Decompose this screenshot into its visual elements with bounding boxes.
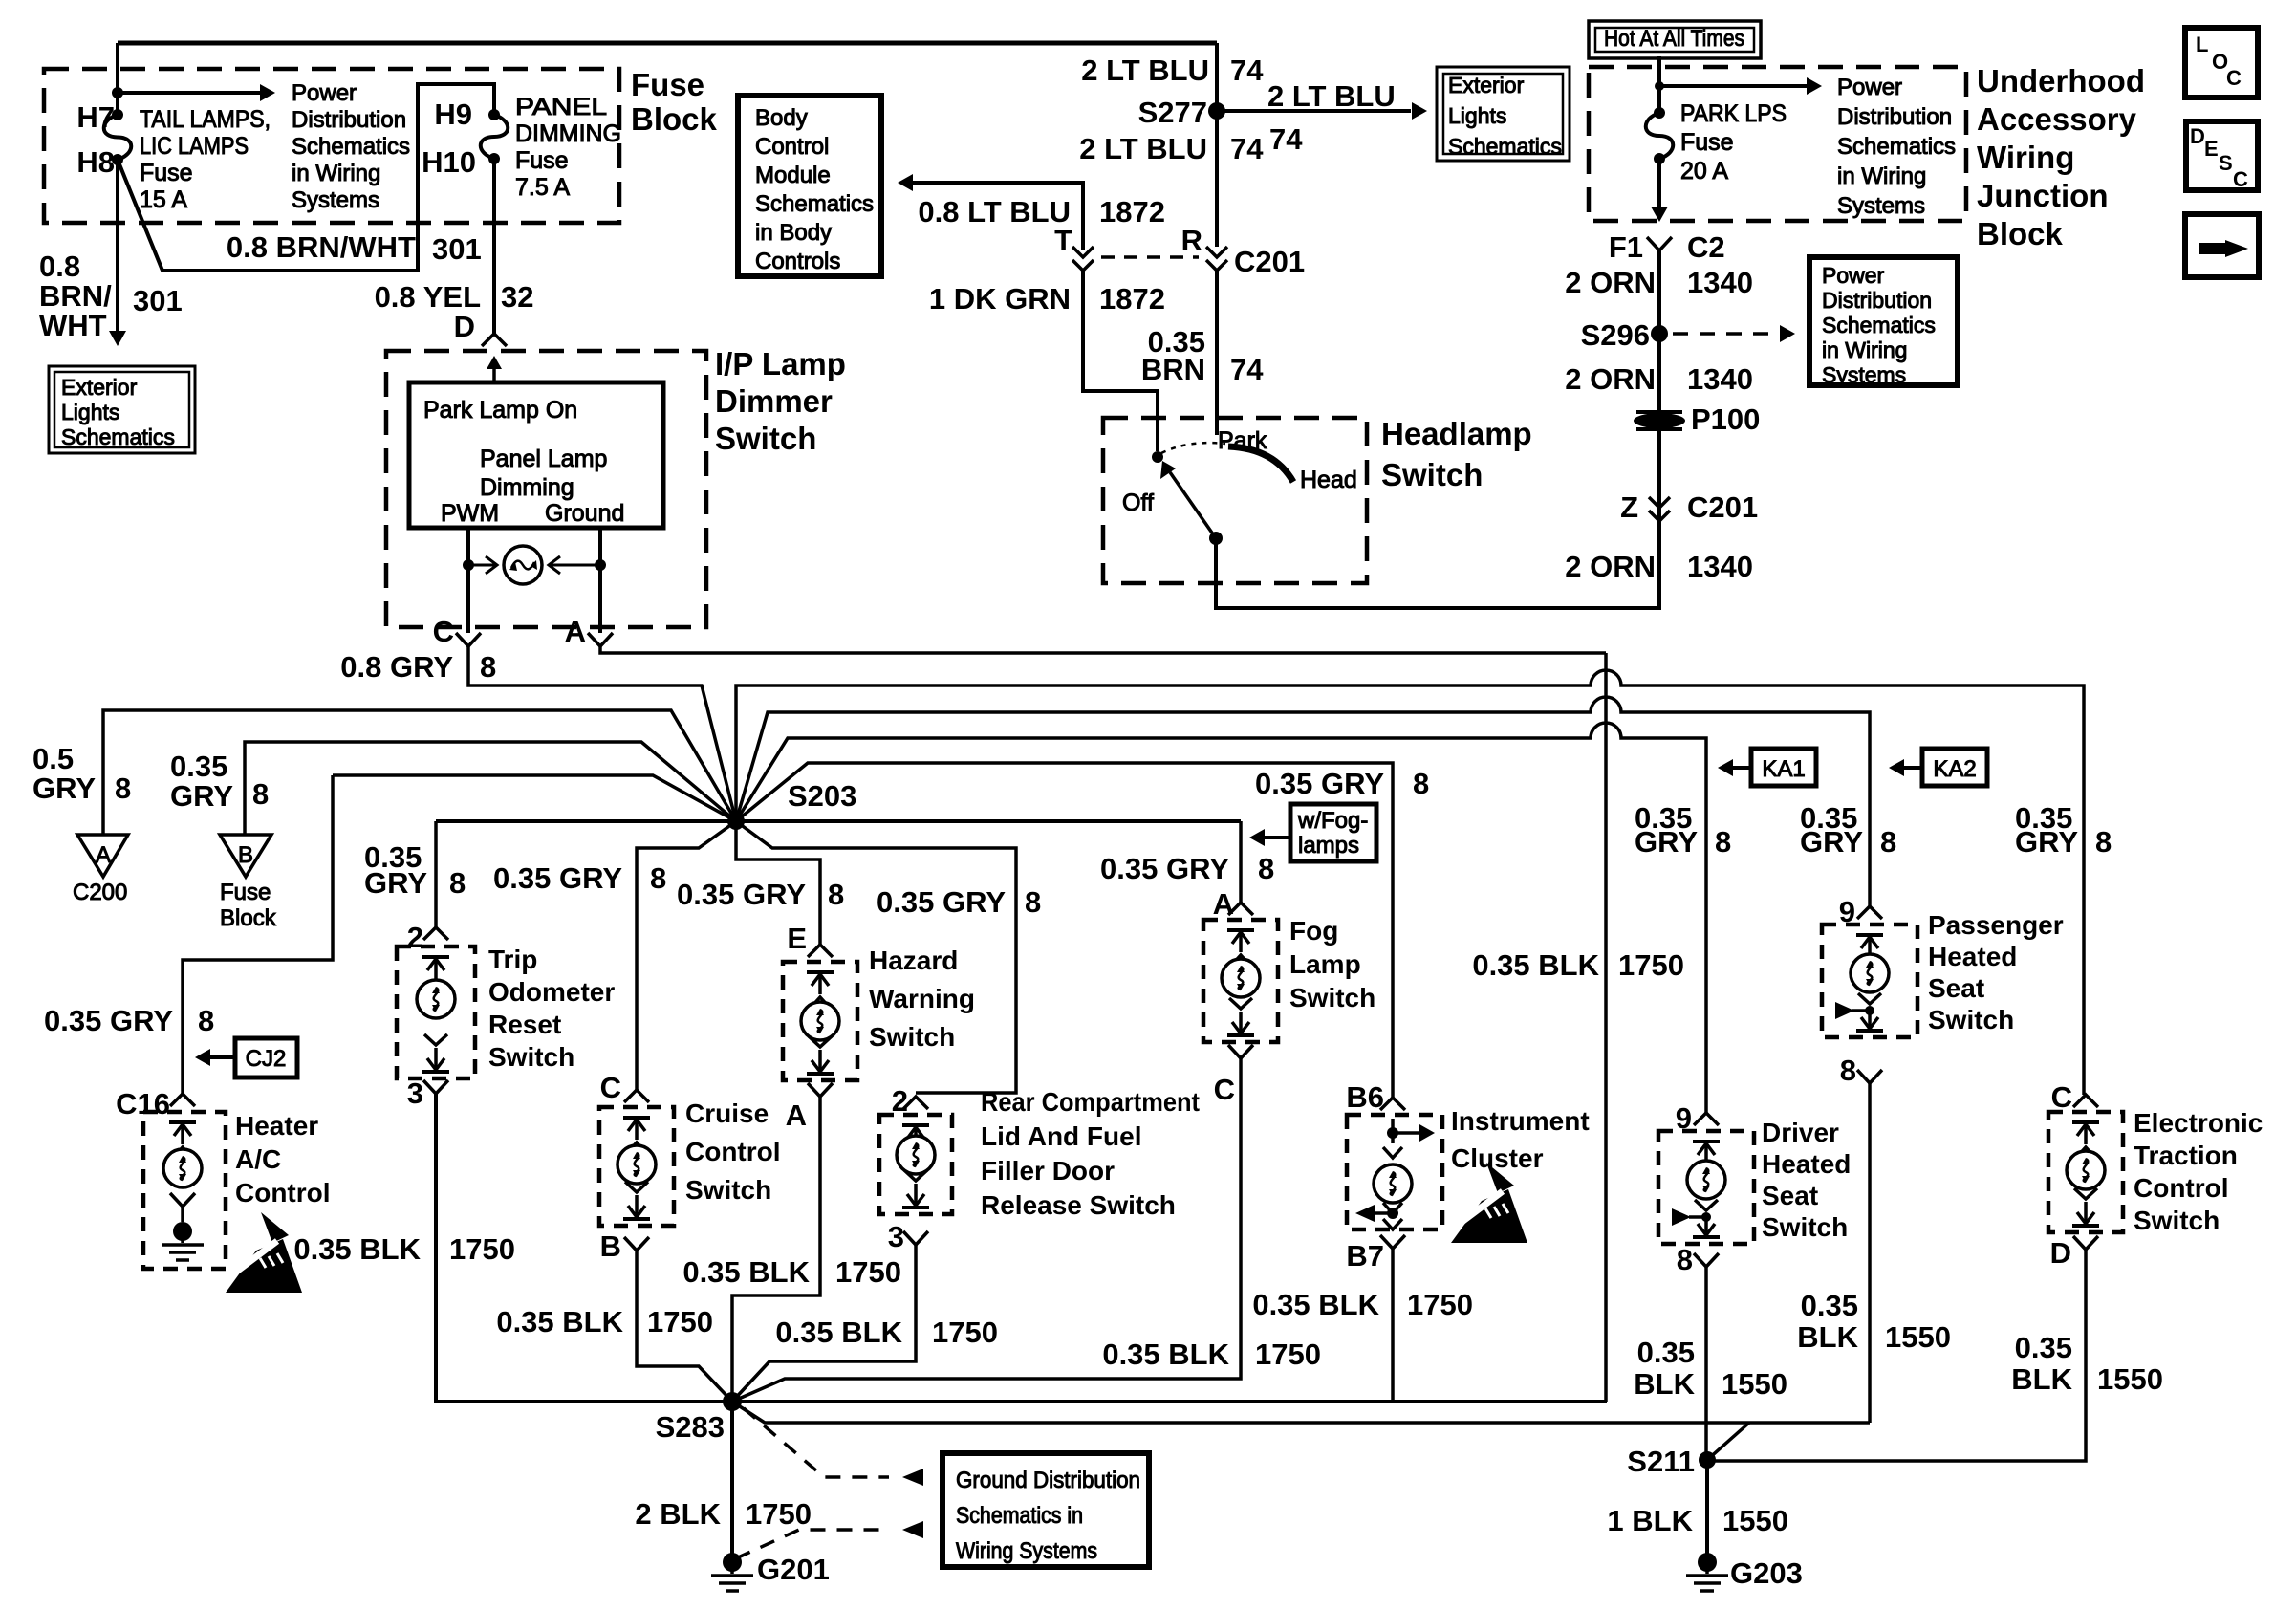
svg-text:Fuse: Fuse <box>140 160 193 186</box>
svg-text:Seat: Seat <box>1762 1181 1818 1210</box>
svg-text:GRY: GRY <box>1800 825 1863 859</box>
svg-text:GRY: GRY <box>170 779 233 813</box>
svg-text:in Wiring: in Wiring <box>292 161 380 186</box>
body control module box <box>738 96 881 276</box>
svg-text:Switch: Switch <box>1928 1005 2014 1034</box>
label G201 <box>757 1553 830 1586</box>
svg-text:GRY: GRY <box>364 866 427 900</box>
wire S283 to S211 bridge <box>732 1402 1870 1423</box>
label 0.35 GRY cruise <box>493 861 666 895</box>
label Rear Compartment Lid And Fuel Filler Door Release Switch <box>981 1087 1200 1220</box>
svg-text:2 LT BLU: 2 LT BLU <box>1079 132 1207 165</box>
svg-text:B: B <box>238 842 253 868</box>
connector C201 Z <box>1649 497 1670 521</box>
svg-text:P100: P100 <box>1691 402 1760 436</box>
svg-text:CJ2: CJ2 <box>246 1046 287 1072</box>
label Ground Distribution Schematics in Wiring Systems <box>956 1468 1140 1564</box>
svg-text:8: 8 <box>1258 852 1274 885</box>
svg-text:Control: Control <box>755 134 829 160</box>
driver heated seat switch box <box>1658 1131 1754 1244</box>
svg-text:Headlamp: Headlamp <box>1381 416 1532 451</box>
svg-text:Systems: Systems <box>1837 193 1925 219</box>
svg-text:PARK LPS: PARK LPS <box>1680 100 1787 127</box>
splice S211 <box>1699 1451 1716 1469</box>
svg-text:Control: Control <box>685 1137 781 1166</box>
splice S277 <box>1208 102 1225 120</box>
label Cruise Control Switch <box>685 1099 781 1205</box>
svg-text:1872: 1872 <box>1099 195 1165 228</box>
svg-text:0.35 GRY: 0.35 GRY <box>1100 852 1229 885</box>
svg-text:Accessory: Accessory <box>1977 101 2137 137</box>
pin A label <box>565 615 586 648</box>
note Power Distribution Schematics in Wiring Systems <box>292 80 410 213</box>
connector chevron D <box>482 334 507 346</box>
svg-text:8: 8 <box>1715 825 1731 859</box>
svg-text:Block: Block <box>1977 216 2064 251</box>
wire headlamp feed 2 ORN <box>1216 519 1659 608</box>
svg-text:1750: 1750 <box>835 1255 901 1289</box>
wire 0.8 BRN/WHT H8 to exterior lights <box>109 160 126 346</box>
connector chevron rear 2 <box>903 1097 928 1109</box>
svg-text:1340: 1340 <box>1687 550 1753 583</box>
splice S283 <box>723 1392 742 1411</box>
svg-text:0.35: 0.35 <box>2015 1331 2072 1364</box>
svg-text:LIC LAMPS: LIC LAMPS <box>140 133 249 160</box>
svg-text:Rear Compartment: Rear Compartment <box>981 1087 1200 1117</box>
svg-text:Control: Control <box>2134 1173 2229 1203</box>
CJ2 arrow <box>195 1049 235 1066</box>
label 2 LT BLU mid <box>1079 132 1264 165</box>
svg-text:2 BLK: 2 BLK <box>635 1497 721 1531</box>
svg-text:0.35 GRY: 0.35 GRY <box>877 885 1006 919</box>
svg-text:301: 301 <box>133 284 183 317</box>
label Passenger Heated Seat Switch <box>1928 910 2064 1034</box>
svg-text:Head: Head <box>1300 467 1357 493</box>
w/Fog-lamps box <box>1290 804 1376 861</box>
svg-text:Dimmer: Dimmer <box>715 383 833 419</box>
svg-text:8: 8 <box>1677 1243 1693 1276</box>
wire S203 to passenger bus R2 <box>736 697 1870 906</box>
svg-text:D: D <box>454 310 475 343</box>
connector chevron rear 3 <box>903 1231 928 1245</box>
connector chevron B7 <box>1380 1235 1405 1249</box>
svg-text:8: 8 <box>1413 767 1429 800</box>
pin A label hazard <box>786 1099 807 1132</box>
wire trip return 0.35 BLK to S283 <box>436 1094 1607 1402</box>
svg-text:Wiring Systems: Wiring Systems <box>956 1538 1097 1564</box>
LOC legend box <box>2185 28 2258 98</box>
svg-text:DIMMING: DIMMING <box>515 120 621 147</box>
svg-text:1872: 1872 <box>1099 282 1165 315</box>
svg-text:0.35 BLK: 0.35 BLK <box>1472 948 1599 982</box>
arrow to power distribution note <box>118 84 275 101</box>
svg-text:Switch: Switch <box>2134 1206 2220 1235</box>
label 0.35 GRY traction <box>2015 801 2112 859</box>
label 0.35 BLK rear return <box>775 1316 998 1349</box>
svg-text:Distribution: Distribution <box>1837 104 1952 130</box>
svg-text:G203: G203 <box>1730 1556 1803 1590</box>
svg-text:C: C <box>600 1071 621 1104</box>
svg-text:1750: 1750 <box>932 1316 998 1349</box>
label Driver Heated Seat Switch <box>1762 1118 1851 1242</box>
svg-text:1750: 1750 <box>1407 1288 1473 1321</box>
wire park lps down with arrow <box>1651 159 1668 222</box>
cruise control switch box <box>599 1107 674 1226</box>
label S203 <box>788 779 856 813</box>
svg-text:0.35 BLK: 0.35 BLK <box>293 1232 421 1266</box>
label 0.35 BLK driver return <box>1634 1336 1787 1401</box>
connector chevron trip 2 <box>423 927 448 940</box>
svg-text:BLK: BLK <box>2011 1362 2072 1396</box>
svg-text:0.35 GRY: 0.35 GRY <box>1255 767 1384 800</box>
svg-text:C: C <box>433 615 454 648</box>
svg-text:Cruise: Cruise <box>685 1099 769 1128</box>
svg-text:L: L <box>2196 33 2208 56</box>
svg-text:A: A <box>1213 887 1234 921</box>
svg-text:A: A <box>786 1099 807 1132</box>
headlamp park contact arc <box>1228 446 1293 482</box>
connector chevron driver 8 <box>1694 1253 1719 1267</box>
label Instrument Cluster <box>1451 1106 1590 1173</box>
svg-text:B: B <box>600 1229 621 1263</box>
svg-text:KA1: KA1 <box>1762 756 1805 782</box>
ground distribution schematics box <box>942 1453 1149 1567</box>
wire F1 to S296 <box>1657 250 1661 602</box>
svg-text:E: E <box>2204 137 2219 161</box>
svg-text:0.35 GRY: 0.35 GRY <box>44 1004 173 1037</box>
connector chevron passenger 8 <box>1857 1070 1882 1083</box>
svg-text:Heated: Heated <box>1928 942 2017 971</box>
wire BCM arrow to T <box>898 174 1083 250</box>
w/Fog-lamps arrow <box>1249 829 1290 846</box>
svg-text:E: E <box>787 922 807 955</box>
connector chevron C out <box>456 633 481 646</box>
label 0.35 BLK cruise return <box>496 1305 713 1338</box>
svg-text:Switch: Switch <box>1289 983 1375 1012</box>
wire top bus 2 LT BLU to S277 <box>118 41 1217 46</box>
arrow legend box <box>2185 214 2259 277</box>
wire driver return 0.35 BLK 1550 <box>1704 1267 1708 1460</box>
label Park <box>1218 427 1267 454</box>
dimmer switch inner box <box>409 382 663 528</box>
fog lamp switch box <box>1203 920 1278 1042</box>
wire S277 arrow to exterior lights <box>1217 102 1427 120</box>
wire 1 BLK to G203 <box>1705 1460 1709 1556</box>
label Exterior Lights Schematics right <box>1448 73 1562 159</box>
svg-text:8: 8 <box>252 777 269 811</box>
pin H9 label <box>434 98 472 131</box>
svg-text:in Wiring: in Wiring <box>1837 163 1926 189</box>
wire 2 BLK to G201 <box>730 1402 734 1556</box>
label Body Control Module Schematics in Body Controls <box>755 105 874 274</box>
svg-text:0.35: 0.35 <box>170 750 227 783</box>
label Fog Lamp Switch <box>1289 916 1375 1012</box>
svg-text:Warning: Warning <box>869 984 975 1013</box>
note Power Distribution right <box>1837 75 1956 219</box>
svg-text:0.35 GRY: 0.35 GRY <box>677 878 806 911</box>
dimmer lamp symbol dots <box>463 559 606 571</box>
svg-text:8: 8 <box>1840 1054 1856 1087</box>
svg-text:1 DK GRN: 1 DK GRN <box>929 282 1071 315</box>
heater internal ground <box>162 1222 204 1260</box>
svg-text:Heater: Heater <box>235 1111 318 1141</box>
svg-text:2 LT BLU: 2 LT BLU <box>1267 79 1396 113</box>
wire 0.8 YEL 32 H10 to dimmer D <box>492 159 496 334</box>
svg-text:Block: Block <box>631 101 718 137</box>
svg-text:1750: 1750 <box>1618 948 1684 982</box>
svg-text:8: 8 <box>650 861 666 895</box>
svg-text:0.35 BLK: 0.35 BLK <box>496 1305 623 1338</box>
svg-text:74: 74 <box>1230 353 1264 386</box>
svg-text:Cluster: Cluster <box>1451 1143 1544 1173</box>
svg-text:A/C: A/C <box>235 1144 281 1174</box>
label 1750 trip return <box>449 1232 515 1266</box>
label 301 right <box>432 232 482 266</box>
cluster bulb <box>1374 1147 1412 1203</box>
label PANEL DIMMING Fuse 7.5 A <box>515 94 621 201</box>
hazard warning switch box <box>783 962 857 1080</box>
svg-text:TAIL LAMPS,: TAIL LAMPS, <box>140 106 271 133</box>
svg-text:20 A: 20 A <box>1680 158 1728 185</box>
label 0.35 GRY passenger <box>1800 801 1896 859</box>
pin H7 label <box>76 100 115 134</box>
svg-text:C200: C200 <box>73 880 127 905</box>
svg-text:0.8 YEL: 0.8 YEL <box>375 280 481 314</box>
svg-text:Lights: Lights <box>1448 103 1506 128</box>
svg-text:0.35 BLK: 0.35 BLK <box>1102 1338 1229 1371</box>
label 0.8 YEL <box>375 280 481 314</box>
svg-text:8: 8 <box>2095 825 2112 859</box>
label S211 <box>1627 1445 1695 1478</box>
wire fog return 0.35 BLK <box>732 1058 1241 1402</box>
svg-text:0.35 BLK: 0.35 BLK <box>775 1316 902 1349</box>
svg-text:WHT: WHT <box>39 309 107 342</box>
headlamp off contact dot <box>1152 451 1163 463</box>
svg-text:8: 8 <box>1025 885 1041 919</box>
wire fog feed down <box>1239 821 1243 903</box>
fuse TAIL LAMPS terminal dots <box>112 109 123 165</box>
label 2 LT BLU top <box>1081 54 1264 87</box>
connector chevron C16 <box>170 1094 195 1106</box>
svg-text:Release Switch: Release Switch <box>981 1190 1176 1220</box>
headlamp off dotted arc <box>1161 443 1225 453</box>
connector chevron traction C <box>2073 1095 2098 1107</box>
svg-text:H8: H8 <box>76 145 115 179</box>
pin D label traction <box>2050 1236 2071 1270</box>
svg-text:0.35: 0.35 <box>1637 1336 1695 1369</box>
ESD symbol heater <box>224 1212 302 1293</box>
svg-text:BLK: BLK <box>1634 1367 1695 1401</box>
svg-text:301: 301 <box>432 232 482 266</box>
KA2 box <box>1922 749 1987 786</box>
label Fuse Block under B <box>220 880 277 931</box>
svg-text:0.35 GRY: 0.35 GRY <box>493 861 622 895</box>
label 0.35 GRY rear <box>877 885 1041 919</box>
svg-text:Exterior: Exterior <box>61 375 138 400</box>
park lps fuse element <box>1646 113 1674 159</box>
label 0.5 GRY 8 <box>32 742 131 805</box>
svg-text:1550: 1550 <box>1722 1504 1788 1537</box>
label 2 ORN 1 <box>1565 266 1753 299</box>
svg-text:Fuse: Fuse <box>631 67 704 102</box>
label 1750 G201 <box>746 1497 812 1531</box>
dimmer internal arrow from D <box>487 356 502 381</box>
label Panel Lamp Dimming <box>480 446 607 501</box>
svg-text:Systems: Systems <box>1822 362 1906 387</box>
label 0.35 GRY heater <box>44 1004 173 1037</box>
svg-text:A: A <box>96 842 111 868</box>
heater internal ground chevron <box>170 1193 195 1222</box>
svg-text:Lamp: Lamp <box>1289 949 1361 979</box>
svg-text:Switch: Switch <box>685 1175 771 1205</box>
pin 9 label driver <box>1676 1101 1692 1135</box>
wire S203 up to right bus R1 <box>736 670 2084 1095</box>
label PWM <box>441 500 499 527</box>
svg-text:0.35 BLK: 0.35 BLK <box>682 1255 810 1289</box>
label 301 left <box>133 284 183 317</box>
label PARK LPS Fuse 20 A <box>1680 100 1787 185</box>
label 1550 G203 <box>1722 1504 1788 1537</box>
svg-text:1 BLK: 1 BLK <box>1607 1504 1693 1537</box>
label 1750 on rail <box>1618 948 1684 982</box>
label 1872 upper <box>1099 195 1165 228</box>
label 2 ORN 3 <box>1565 550 1753 583</box>
splice S296 <box>1651 325 1668 342</box>
wire cruise return 0.35 BLK <box>637 1251 732 1402</box>
label 0.35 BLK B7 return <box>1252 1288 1473 1321</box>
arrow to power distribution right <box>1655 77 1822 95</box>
label Exterior Lights Schematics <box>61 375 175 449</box>
label I/P Lamp Dimmer Switch <box>715 346 846 456</box>
label 2 ORN 2 <box>1565 362 1753 396</box>
svg-text:3: 3 <box>888 1220 904 1253</box>
label 0.8 GRY <box>340 650 453 684</box>
pin 9 label passenger <box>1839 895 1855 928</box>
svg-text:Z: Z <box>1620 490 1638 524</box>
label Fuse Block <box>631 67 718 137</box>
grommet P100 <box>1634 412 1685 429</box>
rear release switch box <box>879 1115 952 1214</box>
pin 3 label rear <box>888 1220 904 1253</box>
hot at all times box <box>1589 21 1761 58</box>
svg-text:8: 8 <box>449 866 466 900</box>
label 0.35 GRY hazard <box>677 878 844 911</box>
svg-text:Lid And Fuel: Lid And Fuel <box>981 1121 1142 1151</box>
svg-text:0.8 LT BLU: 0.8 LT BLU <box>918 195 1071 228</box>
wire Ground pin down <box>598 528 602 633</box>
wire B7 return 0.35 BLK <box>1391 1249 1395 1402</box>
svg-text:8: 8 <box>115 772 131 805</box>
pin B label cruise <box>600 1229 621 1263</box>
label 0.8 BRN/WHT vertical <box>39 250 112 342</box>
svg-text:T: T <box>1054 224 1072 257</box>
ground G203 <box>1686 1553 1728 1591</box>
label 1 DK GRN <box>929 282 1071 315</box>
svg-text:Power: Power <box>1837 75 1902 100</box>
pin C16 label <box>116 1087 170 1120</box>
cluster B7 internal arrow <box>1355 1203 1402 1229</box>
dashed arrow S296 to power dist box <box>1673 325 1795 342</box>
svg-text:PWM: PWM <box>441 500 499 527</box>
connector C201 T <box>1072 247 1094 271</box>
label Hot At All Times <box>1604 26 1744 52</box>
dimmer lamp symbol <box>468 546 600 584</box>
svg-text:2 ORN: 2 ORN <box>1565 266 1656 299</box>
svg-text:Controls: Controls <box>755 249 840 274</box>
connector chevron trip 3 <box>423 1080 448 1094</box>
wire rear return 0.35 BLK <box>732 1245 916 1402</box>
label 0.8 LT BLU <box>918 195 1071 228</box>
label 8 (0.8 GRY) <box>480 650 496 684</box>
svg-text:GRY: GRY <box>2015 825 2078 859</box>
svg-text:15 A: 15 A <box>140 186 187 213</box>
svg-text:w/Fog-: w/Fog- <box>1297 808 1368 834</box>
svg-text:in Body: in Body <box>755 220 832 246</box>
wire hot feed <box>1657 56 1661 113</box>
wire trip odometer feed <box>434 821 438 927</box>
wire T to headlamp off <box>1083 271 1158 451</box>
svg-text:S277: S277 <box>1138 96 1207 129</box>
label S277 <box>1138 96 1207 129</box>
svg-text:Switch: Switch <box>869 1022 955 1052</box>
park lps fuse dots <box>1654 107 1665 164</box>
label P100 <box>1691 402 1760 436</box>
svg-text:Electronic: Electronic <box>2134 1108 2263 1138</box>
svg-text:8: 8 <box>1880 825 1896 859</box>
pin H8 label <box>76 145 115 179</box>
connector chevron cruise C <box>624 1090 649 1102</box>
svg-text:BLK: BLK <box>1797 1320 1858 1354</box>
connector chevron hazard A <box>808 1083 833 1097</box>
svg-text:D: D <box>2050 1236 2071 1270</box>
headlamp switch dashed box <box>1103 418 1367 583</box>
label Z <box>1620 490 1638 524</box>
svg-text:7.5 A: 7.5 A <box>515 174 570 201</box>
instrument cluster dashed box <box>1347 1115 1442 1229</box>
label 0.35 GRY fog <box>1100 852 1274 885</box>
svg-text:Fuse: Fuse <box>220 880 271 905</box>
svg-text:Hot At All Times: Hot At All Times <box>1604 26 1744 52</box>
wire 0.35 BLK 1750 rail down <box>1604 653 1608 1402</box>
label Heater A/C Control <box>235 1111 331 1207</box>
exterior lights schematics box right <box>1437 67 1570 161</box>
label Underhood Accessory Wiring Junction Block <box>1977 63 2145 251</box>
svg-text:Switch: Switch <box>1381 457 1483 492</box>
trip odometer reset switch box <box>397 946 475 1078</box>
wire 0.8 BRN/WHT 301 H8 to H9 <box>118 84 494 271</box>
label Head <box>1300 467 1357 493</box>
wire S203 to cluster bus R4 <box>736 763 1393 1098</box>
headlamp rotor arm <box>1160 461 1216 538</box>
svg-text:1550: 1550 <box>2097 1362 2163 1396</box>
ESD symbol cluster <box>1449 1163 1527 1243</box>
svg-text:1340: 1340 <box>1687 266 1753 299</box>
pin B6 label <box>1346 1080 1384 1114</box>
svg-text:1750: 1750 <box>1255 1338 1321 1371</box>
svg-text:Dimming: Dimming <box>480 474 574 501</box>
label C2 <box>1687 230 1725 264</box>
svg-text:Passenger: Passenger <box>1928 910 2064 940</box>
svg-text:2 ORN: 2 ORN <box>1565 550 1656 583</box>
label S283 <box>656 1410 725 1444</box>
svg-text:0.35: 0.35 <box>1801 1289 1858 1322</box>
svg-text:Schematics: Schematics <box>61 424 175 449</box>
label 2 LT BLU arrow <box>1267 79 1396 113</box>
svg-text:C16: C16 <box>116 1087 170 1120</box>
svg-text:Seat: Seat <box>1928 973 1984 1003</box>
svg-text:8: 8 <box>198 1004 214 1037</box>
svg-text:8: 8 <box>480 650 496 684</box>
